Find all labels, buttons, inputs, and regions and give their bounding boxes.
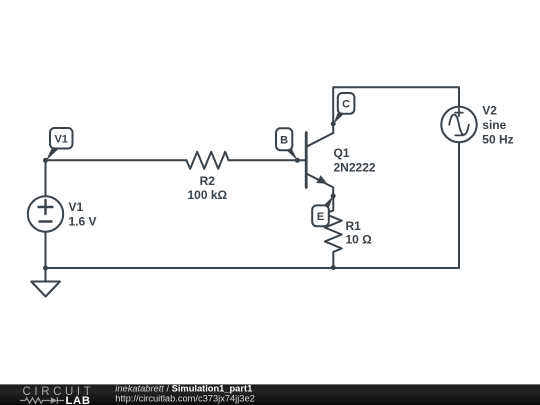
footer bar bbox=[0, 384, 540, 405]
label R1 value bbox=[346, 219, 373, 246]
node V1 flag bbox=[46, 128, 73, 161]
svg-text:Q1: Q1 bbox=[334, 146, 350, 160]
junction node main bbox=[43, 158, 48, 163]
svg-text:B: B bbox=[280, 134, 288, 146]
voltage source V2 bbox=[441, 107, 476, 142]
svg-text:V2: V2 bbox=[482, 104, 497, 118]
url text bbox=[115, 393, 255, 403]
svg-text:R1: R1 bbox=[346, 219, 362, 233]
svg-text:inekatabrett / Simulation1_par: inekatabrett / Simulation1_part1 bbox=[115, 383, 252, 393]
svg-text:50 Hz: 50 Hz bbox=[482, 133, 513, 147]
svg-text:100 kΩ: 100 kΩ bbox=[187, 188, 227, 202]
title text bbox=[115, 383, 252, 393]
resistor R2 bbox=[186, 152, 228, 169]
junction node B bbox=[295, 158, 300, 163]
label Q1 value bbox=[334, 146, 376, 174]
wire base right bbox=[229, 159, 307, 161]
wire node V1 down to source bbox=[45, 160, 47, 196]
svg-text:E: E bbox=[317, 211, 324, 223]
label V2 value bbox=[482, 104, 513, 147]
svg-text:V1: V1 bbox=[69, 200, 84, 214]
svg-text:V1: V1 bbox=[54, 133, 67, 145]
svg-text:R2: R2 bbox=[200, 174, 216, 188]
voltage source V1 bbox=[28, 196, 63, 231]
wire bottom rail bbox=[46, 267, 460, 269]
label V1 value bbox=[69, 200, 97, 229]
junction ground bbox=[43, 266, 48, 271]
svg-text:1.6 V: 1.6 V bbox=[69, 215, 97, 229]
junction node C bbox=[331, 121, 336, 126]
node C flag bbox=[333, 93, 354, 124]
svg-text:LAB: LAB bbox=[66, 395, 91, 405]
label R2 value bbox=[187, 174, 227, 202]
svg-text:10 Ω: 10 Ω bbox=[346, 232, 373, 246]
node E flag bbox=[312, 196, 333, 226]
svg-text:2N2222: 2N2222 bbox=[334, 161, 376, 175]
ground bbox=[31, 268, 60, 297]
resistor R1 bbox=[325, 196, 342, 268]
wire collector to top and right bbox=[333, 87, 459, 133]
node B flag bbox=[276, 128, 298, 160]
wire base left bbox=[46, 159, 187, 161]
svg-text:http://circuitlab.com/c373jx74: http://circuitlab.com/c373jx74jj3e2 bbox=[115, 393, 255, 403]
wire source to bottom bbox=[45, 232, 47, 268]
junction R1 bottom bbox=[331, 265, 336, 270]
transistor Q1 bbox=[306, 133, 333, 196]
svg-text:sine: sine bbox=[482, 118, 506, 132]
wire V2 to bottom bbox=[458, 142, 460, 268]
junction node E bbox=[331, 193, 336, 198]
svg-text:C: C bbox=[342, 99, 350, 111]
CircuitLab logo bbox=[20, 386, 94, 405]
